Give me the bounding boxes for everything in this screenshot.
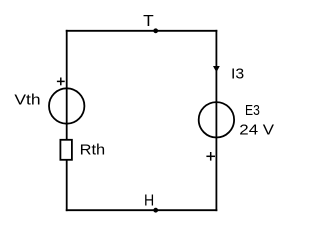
svg-text:E3: E3 [245,103,260,119]
svg-text:Vth: Vth [14,93,40,109]
wire bottom (H node rail) [66,209,218,211]
wire left (through Vth source to Rth) [66,30,68,211]
plus polarity of Vth [57,78,65,86]
current arrow I3 [213,66,220,72]
svg-text:I3: I3 [231,67,244,83]
svg-text:H: H [144,193,154,210]
voltage source Vth [49,88,84,123]
voltage source E3 [199,102,234,137]
wire right (through E3 source) [215,30,217,211]
svg-text:24 V: 24 V [239,123,274,139]
resistor Rth [60,140,72,160]
svg-text:T: T [143,13,154,30]
svg-text:Rth: Rth [80,143,106,159]
node H junction dot [153,208,158,213]
node T junction dot [153,28,158,33]
plus polarity of E3 [206,152,215,161]
wire top (T node rail) [66,30,218,32]
